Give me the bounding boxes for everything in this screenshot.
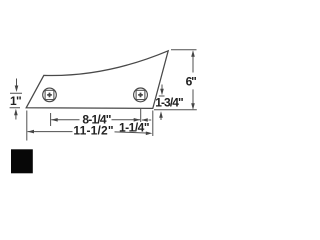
svg-text:1": 1" xyxy=(10,94,21,108)
svg-text:11-1/2": 11-1/2" xyxy=(73,124,113,138)
svg-text:1-3/4": 1-3/4" xyxy=(155,96,183,110)
svg-text:6": 6" xyxy=(186,75,196,89)
